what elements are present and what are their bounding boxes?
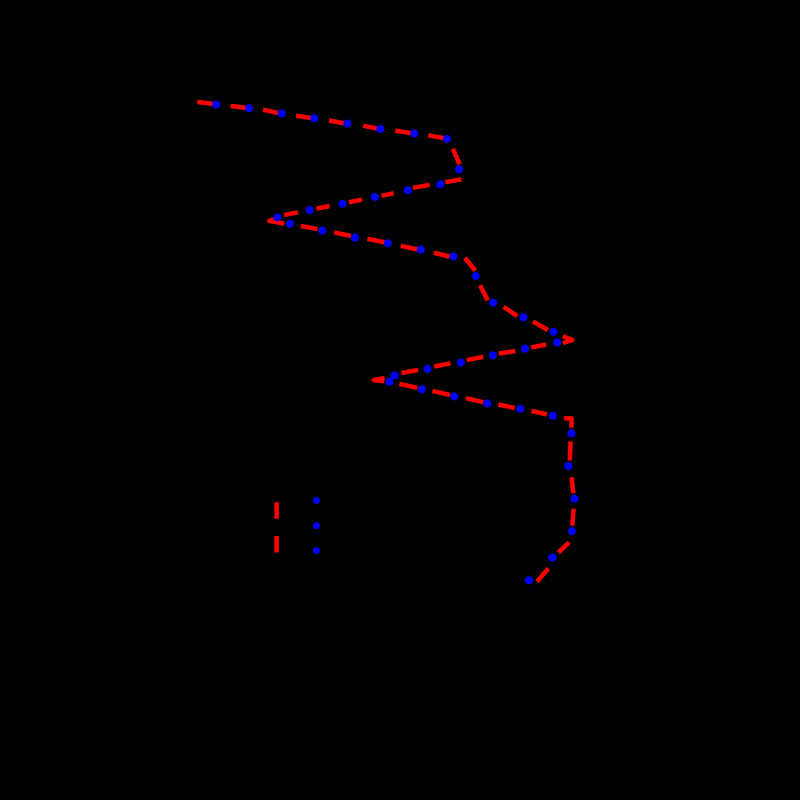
data series: blue circle markers	[212, 100, 578, 584]
legend sample: blue dot markers	[313, 497, 320, 554]
data series: red dashed profile line	[197, 102, 573, 582]
legend sample: red dashed line	[274, 502, 279, 552]
